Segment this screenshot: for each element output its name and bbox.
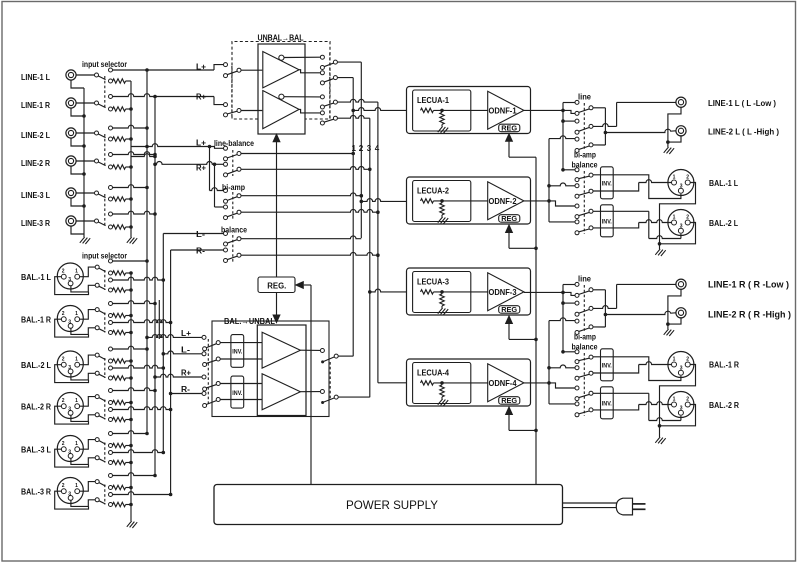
switch pole BAL.-2 L cold: [95, 371, 99, 375]
wire conv pole4 to bus3: [337, 115, 370, 118]
dashed box UNBAL-BAL: [232, 42, 330, 120]
switch pole BAL.-1 L cold: [95, 283, 99, 287]
contact BAL.-1 L signal1 throw: [109, 259, 113, 263]
switch blade LINE-2 L: [98, 134, 106, 138]
switch pole BAL.-2 L hot: [95, 353, 99, 357]
wire pole4 to amp: [220, 399, 262, 401]
wire L- to BAL-UNBAL: [162, 352, 166, 356]
resistor LECUA-1 shunt: [440, 112, 444, 124]
XLR out 1 L: [668, 170, 694, 196]
bus 4: [377, 102, 379, 383]
contact BAL.-3 L res2: [109, 461, 113, 465]
switch bal out 3 L: [575, 204, 579, 208]
resistor BAL.-1 R term2: [113, 330, 126, 334]
RCA jack LINE-1 L: [66, 70, 76, 80]
svg-text:LINE-1 R ( R -Low ): LINE-1 R ( R -Low ): [708, 280, 789, 290]
wire XLR2 pin2 ground L: [660, 223, 696, 244]
wire input selector line (1L signal) to UNBAL switch: [109, 68, 113, 72]
wire bus549 to bal swb R: [547, 366, 551, 370]
XLR jack BAL.-3 L: [57, 436, 83, 462]
ground LECUA-4: [441, 397, 443, 399]
resistor LECUA-4 shunt: [440, 385, 444, 397]
contact BAL.-3 R signal1 throw: [109, 474, 113, 478]
switch pole BAL.-2 R hot: [95, 395, 99, 399]
contact LINE-1 L mute-resistor throw: [109, 79, 113, 83]
resistor LINE-3 R termination: [113, 225, 126, 229]
contact BAL.-3 R signal2 throw: [109, 493, 113, 497]
svg-text:L-: L-: [181, 345, 190, 354]
switch bal out 2 L: [575, 184, 579, 188]
wire BAL.-3 R signal2 to bus: [112, 492, 170, 495]
wire bus1 to LECUA-1 input: [351, 109, 355, 113]
wire pole d through INV2 L: [593, 227, 613, 229]
wire pole a through INV1 R: [593, 356, 613, 358]
wire LINE-1 R tip to selector switch: [76, 102, 95, 104]
wire ODNF out high R: [524, 382, 549, 384]
contact LINE-2 L mute-resistor throw: [109, 137, 113, 141]
dashed gang link line-input pair: [104, 134, 106, 165]
contact LINE-2 R mute-resistor throw: [109, 165, 113, 169]
XLR jack BAL.-1 L: [57, 263, 83, 289]
inverter box INV out2 L: [601, 205, 614, 237]
switch converter output 4: [320, 111, 324, 115]
wire ODNF out low L: [524, 109, 563, 111]
contact BAL.-2 L signal1 throw: [109, 347, 113, 351]
AC plug prongs: [633, 503, 646, 505]
wire LECUA-4 internal: [434, 382, 488, 384]
bus L-select x147: [146, 70, 148, 434]
arrow rail to REG: [304, 284, 311, 286]
XLR jack BAL.-2 R: [57, 393, 83, 419]
switch pole BAL.-1 L hot: [95, 265, 99, 269]
XLR jack BAL.-3 R: [57, 478, 83, 504]
svg-text:1: 1: [352, 144, 357, 153]
svg-text:line: line: [578, 275, 592, 284]
wire pole1 to amp: [220, 342, 262, 344]
switch pole BAL.-1 R hot: [95, 308, 99, 312]
switch bal out 4 L: [575, 220, 579, 224]
svg-text:bi-amp: bi-amp: [574, 151, 596, 160]
wire bus563 top to line sw1 L: [563, 102, 575, 104]
svg-text:LINE-3 L: LINE-3 L: [21, 191, 50, 200]
svg-text:LINE-1 L ( L -Low ): LINE-1 L ( L -Low ): [708, 99, 776, 108]
resistor BAL.-2 L term1: [113, 359, 126, 363]
svg-text:LINE-3 R: LINE-3 R: [21, 219, 50, 228]
switch line out 1 L: [575, 100, 579, 104]
housing BAL.-3 L: [55, 449, 89, 467]
svg-text:3: 3: [680, 405, 683, 411]
wire bus2 to LECUA-2 input: [360, 200, 364, 204]
wire pole b through INV1 R: [593, 372, 613, 374]
wire LINE-3 L shell drop to ground bus: [71, 198, 84, 206]
housing BAL.-2 L: [55, 365, 89, 383]
bus R-minus x170: [170, 250, 172, 495]
housing BAL.-3 R: [55, 491, 89, 509]
svg-text:2: 2: [686, 215, 689, 221]
resistor LECUA-1 series: [421, 108, 434, 112]
svg-text:2: 2: [686, 397, 689, 403]
resistor BAL.-2 L term2: [113, 376, 126, 380]
wire BAL.-2 L pin3 to cold pole: [71, 371, 95, 380]
termination bus x131 (line section): [130, 81, 132, 237]
svg-text:R-: R-: [181, 385, 190, 394]
contact LINE-2 R signal throw: [109, 153, 113, 157]
wire RCA1 shell L: [668, 107, 681, 141]
wire BAL.-1 L signal2 to bus: [112, 277, 163, 280]
svg-text:LECUA-4: LECUA-4: [417, 368, 449, 378]
switch bal out 1 L: [575, 168, 579, 172]
block LECUA-4 inner box: [413, 363, 471, 404]
svg-text:INV.: INV.: [602, 219, 612, 226]
wire BAL.-3 L pin3 to cold pole: [71, 456, 95, 465]
dashed gang link line-input pair: [104, 194, 106, 225]
svg-text:4: 4: [375, 144, 380, 153]
wire pole b through INV1 L: [593, 190, 613, 192]
wire REG supply tap ODNF-2: [509, 247, 536, 249]
op-amp BAL-UNBAL R triangle: [262, 374, 300, 410]
svg-text:R+: R+: [196, 93, 206, 102]
switch pole BAL.-1 R cold: [95, 326, 99, 330]
switch line-balance R: [224, 162, 228, 166]
RCA jack LINE-2 R: [66, 156, 76, 166]
svg-text:BAL.-1 R: BAL.-1 R: [21, 316, 51, 325]
switch pole BAL.-3 L cold: [95, 456, 99, 460]
svg-text:2: 2: [686, 357, 689, 363]
svg-text:LINE-2 L ( L -High ): LINE-2 L ( L -High ): [708, 127, 779, 136]
svg-text:REG.: REG.: [267, 282, 286, 291]
contact LINE-3 L signal throw: [109, 186, 113, 190]
bus 3: [369, 118, 371, 397]
wire LINE-1 L tip to selector switch: [76, 74, 95, 76]
svg-text:input selector: input selector: [82, 60, 127, 69]
wire U-conv-1 inverted output: [284, 56, 321, 58]
svg-text:L+: L+: [181, 329, 191, 338]
svg-text:line: line: [578, 93, 592, 102]
svg-text:1: 1: [673, 357, 676, 363]
outer box BAL-UNBAL: [212, 321, 329, 417]
svg-text:bi-amp: bi-amp: [222, 183, 245, 192]
wire INV1 out1 to XLR1 pin3 L: [613, 175, 681, 199]
inverter box INV2 (left): [231, 376, 244, 408]
resistor LECUA-2 shunt: [440, 203, 444, 215]
wire BAL.-3 R pin3 to cold pole: [71, 498, 95, 507]
block LECUA-4 outer box: [407, 359, 531, 406]
svg-text:REG: REG: [501, 124, 517, 133]
wire bus4 to LECUA-4 input: [378, 382, 407, 384]
contact LINE-1 R signal throw: [109, 95, 113, 99]
svg-text:ODNF-1: ODNF-1: [489, 106, 517, 116]
wire BAL.-1 L pin3 to cold pole: [71, 283, 95, 292]
dashed gang line-balance: [232, 150, 234, 176]
termination bus x131 (bal section): [130, 273, 132, 521]
switch pole LINE-1 R: [95, 101, 99, 105]
wire ODNF out low R: [524, 291, 563, 293]
switch L+ converter input: [224, 63, 228, 67]
resistor BAL.-3 L term1: [113, 443, 126, 447]
switch pole LINE-3 R: [95, 219, 99, 223]
power rail x536: [535, 157, 537, 484]
svg-text:ODNF-4: ODNF-4: [489, 378, 517, 388]
resistor BAL.-1 L term1: [113, 271, 126, 275]
svg-text:REG: REG: [501, 214, 517, 223]
svg-text:LECUA-1: LECUA-1: [417, 95, 449, 105]
svg-text:LINE-2 R ( R -High ): LINE-2 R ( R -High ): [708, 310, 791, 320]
svg-text:LINE-2 R: LINE-2 R: [21, 159, 50, 168]
svg-text:3: 3: [680, 183, 683, 189]
svg-text:L+: L+: [196, 63, 206, 72]
contact BAL.-2 L res1: [109, 359, 113, 363]
switch pole LINE-2 R: [95, 159, 99, 163]
junction termination bus: [129, 107, 133, 111]
bus L-minus x163: [162, 234, 164, 453]
op-amp ODNF-1 triangle: [488, 91, 524, 129]
switch BAL-UNBAL input 3: [202, 375, 206, 379]
switch BAL-UNBAL R output: [320, 390, 324, 394]
op-amp ODNF-2 triangle: [488, 182, 524, 220]
svg-text:INV.: INV.: [602, 181, 612, 188]
wire bus563 bottom to bal swa R: [561, 350, 565, 354]
regulator box REG ODNF-3: [499, 306, 520, 314]
wire BAL.-2 L pin1 to hot pole: [80, 355, 95, 365]
svg-text:INV.: INV.: [232, 390, 242, 397]
resistor LINE-2 L termination: [113, 137, 126, 141]
svg-text:2: 2: [686, 175, 689, 181]
switch pole BAL.-3 R hot: [95, 480, 99, 484]
svg-text:BAL.-3 R: BAL.-3 R: [21, 488, 51, 497]
arrow power into converter box: [276, 141, 278, 277]
wire bus549 top to line sw3 L: [549, 136, 575, 139]
wire conv pole1 to bus2: [337, 61, 361, 63]
block LECUA-3 inner box: [413, 272, 471, 313]
wire line pole3 R: [593, 326, 606, 328]
XLR jack BAL.-2 L: [57, 351, 83, 377]
svg-text:3: 3: [680, 365, 683, 371]
XLR out 1 R: [668, 352, 694, 378]
svg-text:3: 3: [680, 223, 683, 229]
resistor LECUA-4 series: [421, 381, 434, 385]
bus R-select x155: [154, 97, 156, 476]
contact BAL.-2 L res2: [109, 376, 113, 380]
svg-text:3: 3: [68, 319, 71, 325]
wire line pole1 R: [593, 289, 606, 291]
wire line pole2 to RCA1 L: [593, 124, 617, 127]
wire R+ to BAL-UNBAL: [153, 375, 157, 379]
dashed gang BAL-UNBAL outputs: [329, 362, 331, 400]
wire conv pole2 to bus1: [337, 77, 353, 79]
wire line pole1 L: [593, 107, 606, 109]
wire 1R signal to R bus and UNBAL switch: [112, 94, 214, 97]
svg-text:REG: REG: [501, 305, 517, 314]
wire bus549 to bal swb L: [547, 184, 551, 188]
wire RCA2 shell L: [668, 135, 681, 142]
svg-text:R-: R-: [196, 247, 205, 256]
label UNBAL-BAL: [255, 35, 306, 45]
switch converter output 1: [320, 55, 324, 59]
wire bus3 to LECUA-3 input: [368, 290, 372, 294]
wire REG down to BAL-UNBAL: [276, 293, 278, 316]
op-amp U-conv-1 triangle: [263, 52, 299, 88]
wire bus563 to line sw2 L: [561, 119, 565, 123]
svg-text:2: 2: [62, 269, 65, 275]
svg-text:1: 1: [673, 175, 676, 181]
wire BAL.-2 L signal2 to bus: [112, 365, 163, 368]
contact BAL.-3 L res1: [109, 444, 113, 448]
op-amp BAL-UNBAL L triangle: [262, 332, 300, 368]
wire R+ to line-balance switch: [153, 163, 157, 167]
switch pole LINE-2 L: [95, 131, 99, 135]
resistor BAL.-3 R term2: [113, 502, 126, 506]
switch converter output 2: [320, 71, 324, 75]
resistor BAL.-1 R term1: [113, 313, 126, 317]
svg-text:UNBAL→BAL: UNBAL→BAL: [258, 34, 304, 43]
inverter bubble U-conv-1: [279, 55, 284, 60]
contact BAL.-1 L signal2 throw: [109, 278, 113, 282]
AC plug: [616, 498, 632, 515]
wire amp L output: [300, 349, 320, 351]
inverter box INV out1 L: [601, 167, 614, 199]
contact BAL.-1 R res2: [109, 331, 113, 335]
junction termination bus: [129, 225, 133, 229]
XLR out 2 L: [668, 210, 694, 236]
svg-text:1: 1: [75, 483, 78, 489]
ground LECUA-3: [441, 306, 443, 308]
switch BAL-UNBAL input 2: [202, 352, 206, 356]
junction termination bus: [129, 137, 133, 141]
wire INV2 out2 to XLR2 pin1 R: [613, 405, 639, 410]
block LECUA-1 inner box: [413, 90, 471, 131]
contact LINE-3 L mute-resistor throw: [109, 197, 113, 201]
svg-text:line-balance: line-balance: [214, 139, 254, 148]
switch pole BAL.-3 L hot: [95, 438, 99, 442]
dashed gang link line-input pair: [104, 76, 106, 107]
switch bal out 4 R: [575, 402, 579, 406]
dashed gang BAL-UNBAL inputs: [207, 339, 209, 406]
wire BAL.-3 R signal1 to bus: [112, 473, 155, 476]
resistor LECUA-2 series: [421, 199, 434, 203]
switch bal out 2 R: [575, 366, 579, 370]
dashed gang link BAL.-1 R: [104, 313, 106, 333]
svg-text:LECUA-3: LECUA-3: [417, 277, 449, 287]
RCA jack LINE-3 L: [66, 188, 76, 198]
svg-text:LECUA-2: LECUA-2: [417, 186, 449, 196]
ground symbol termination bus (line): [127, 237, 137, 244]
op-amp U-conv-2 triangle: [263, 91, 299, 129]
RCA jack LINE-1 R: [66, 98, 76, 108]
RCA out 2 L: [676, 126, 686, 136]
switch BAL-UNBAL input 4: [202, 392, 206, 396]
RCA out 1 L: [676, 97, 686, 107]
wire BAL.-1 L signal1 to bus: [112, 260, 147, 262]
switch bi-amp R: [224, 205, 228, 209]
housing BAL.-2 R: [55, 406, 89, 424]
svg-text:2: 2: [62, 357, 65, 363]
wire line pole2 to RCA1 R: [593, 306, 617, 309]
switch line out 2 L: [575, 119, 579, 123]
switch blade LINE-1 L: [98, 76, 106, 80]
svg-text:BAL.-1 L: BAL.-1 L: [21, 273, 51, 282]
inverter bubble U-conv-2: [279, 94, 284, 99]
wire BAL.-2 L signal1 to bus: [112, 346, 147, 349]
wire BAL.-1 R signal1 to bus: [112, 301, 155, 304]
resistor LECUA-3 series: [421, 290, 434, 294]
ground RCA outs L: [664, 147, 674, 154]
dashed gang link BAL.-3 L: [104, 443, 106, 463]
svg-text:INV.: INV.: [602, 401, 612, 408]
switch pole LINE-1 L: [95, 73, 99, 77]
svg-text:R+: R+: [181, 369, 191, 378]
switch balance L: [224, 232, 228, 236]
inverter box INV1 (left): [231, 335, 244, 368]
wire conv pole3 to bus4: [337, 99, 378, 102]
wire LECUA-1 internal: [434, 109, 488, 111]
contact BAL.-2 R signal1 throw: [109, 389, 113, 393]
contact BAL.-3 R res1: [109, 486, 113, 490]
junction shell bus: [82, 144, 86, 148]
contact LINE-1 R mute-resistor throw: [109, 107, 113, 111]
wire LINE-3 R tip to selector switch: [76, 220, 95, 222]
block POWER SUPPLY: [214, 485, 563, 525]
wire amp R output: [300, 391, 320, 393]
wire BAL.-2 R pin3 to cold pole: [71, 413, 95, 422]
contact BAL.-1 R signal1 throw: [109, 302, 113, 306]
RCA jack LINE-3 R: [66, 216, 76, 226]
svg-text:1: 1: [673, 397, 676, 403]
wire L+ to line-balance switch: [132, 144, 210, 147]
wire LINE-2 R tip to selector switch: [76, 160, 95, 162]
wire U-conv-2 inverted output: [284, 96, 321, 98]
block LECUA-2 inner box: [413, 181, 471, 222]
wire LINE-1 R shell drop to ground bus: [71, 108, 84, 116]
resistor BAL.-2 R term2: [113, 417, 126, 421]
svg-text:3: 3: [68, 277, 71, 283]
wire L+ to BAL-UNBAL: [145, 336, 149, 340]
wire 2L signal to L bus: [112, 125, 147, 128]
wire U-conv-2 direct output: [299, 109, 321, 113]
switch pole BAL.-2 R cold: [95, 413, 99, 417]
dashed gang bal out L: [583, 171, 585, 234]
RCA out 2 R: [676, 308, 686, 318]
svg-text:BAL.-1 L: BAL.-1 L: [709, 179, 738, 188]
regulator box REG ODNF-2: [499, 215, 520, 223]
inverter box INV out1 R: [601, 349, 614, 381]
contact LINE-3 R mute-resistor throw: [109, 225, 113, 229]
dashed gang balance: [232, 235, 234, 262]
svg-text:1: 1: [75, 398, 78, 404]
wire BAL.-1 R signal2 to bus: [112, 320, 170, 323]
junction shell bus: [82, 204, 86, 208]
inverter box INV out2 R: [601, 387, 614, 419]
wire XLR1 pin2 ground R: [660, 365, 696, 405]
op-amp ODNF-3 triangle: [488, 273, 524, 311]
svg-text:balance: balance: [221, 226, 247, 235]
resistor LECUA-3 shunt: [440, 294, 444, 306]
svg-text:2: 2: [62, 441, 65, 447]
svg-text:LINE-1 R: LINE-1 R: [21, 101, 50, 110]
svg-text:3: 3: [68, 365, 71, 371]
junction shell bus: [82, 172, 86, 176]
wire INV1 out1 to XLR1 pin3 R: [613, 357, 681, 381]
bus 2: [360, 62, 362, 238]
switch R+ converter input: [224, 103, 228, 107]
svg-text:BAL.-2 L: BAL.-2 L: [21, 361, 51, 370]
bus x563 L: [562, 103, 564, 170]
contact BAL.-2 R res1: [109, 401, 113, 405]
wire 2R signal to R bus: [112, 152, 155, 155]
ground XLR outs R: [655, 437, 665, 444]
junction termination bus: [129, 197, 133, 201]
wire pole d through INV2 R: [593, 409, 613, 411]
wire bus563 bottom to bal swa L: [561, 168, 565, 172]
